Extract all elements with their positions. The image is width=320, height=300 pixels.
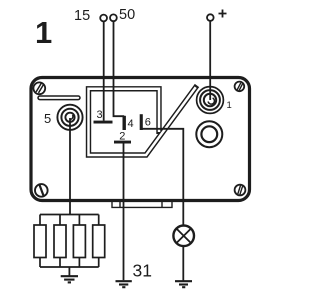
mounting hole circle <box>196 121 222 147</box>
svg-text:2: 2 <box>119 131 125 143</box>
wire from 15 to contact 3 <box>103 22 105 121</box>
resistor bottom drops <box>40 258 99 268</box>
glow plug bus bottom <box>40 266 99 268</box>
svg-text:15: 15 <box>74 8 90 24</box>
terminal 5 <box>57 105 82 130</box>
svg-text:3: 3 <box>97 109 103 121</box>
svg-text:1: 1 <box>227 100 232 111</box>
terminal 50 circle <box>110 14 117 21</box>
svg-text:50: 50 <box>119 7 135 23</box>
bus drops <box>40 215 99 226</box>
wire bus to ground <box>68 267 70 276</box>
plus terminal circle <box>207 14 214 21</box>
contact bar 4 <box>123 116 126 130</box>
relay inner box with armature lever (hollow outline) <box>89 86 198 156</box>
contact bar 6 <box>140 114 143 130</box>
plus sign <box>219 10 227 18</box>
resistor R2 <box>54 225 66 258</box>
svg-text:6: 6 <box>145 117 151 129</box>
svg-text:5: 5 <box>44 111 51 126</box>
screw bottom-right <box>235 185 246 196</box>
terminal 15 circle <box>100 15 107 22</box>
ground under lamp <box>175 281 192 287</box>
ground under glow plugs <box>61 276 78 282</box>
glow plug bus top <box>40 214 99 216</box>
svg-text:4: 4 <box>128 118 134 130</box>
screw top-left <box>33 82 45 94</box>
screw top-right <box>235 82 245 92</box>
slot bar <box>38 96 80 100</box>
wire from terminal 5 to bus <box>69 118 71 215</box>
indicator lamp <box>173 226 194 247</box>
wire from 50 to contact 4 <box>114 21 125 116</box>
terminal 1 <box>197 87 224 114</box>
wire from contact 2 to ground 31 <box>123 143 125 280</box>
svg-text:31: 31 <box>133 261 152 281</box>
ground 31 <box>116 281 132 287</box>
wire from plus to terminal 1 <box>209 21 211 100</box>
relay housing box <box>31 78 250 201</box>
resistor R3 <box>73 225 85 258</box>
resistor R4 <box>93 225 105 258</box>
screw bottom-left <box>35 184 48 197</box>
wire from contact 6 to lamp <box>142 129 184 281</box>
contact bar 2 <box>114 141 131 144</box>
contact bar 3 <box>94 121 113 124</box>
connector tab strip <box>112 202 172 208</box>
svg-text:1: 1 <box>35 15 52 50</box>
resistor R1 <box>34 225 46 258</box>
